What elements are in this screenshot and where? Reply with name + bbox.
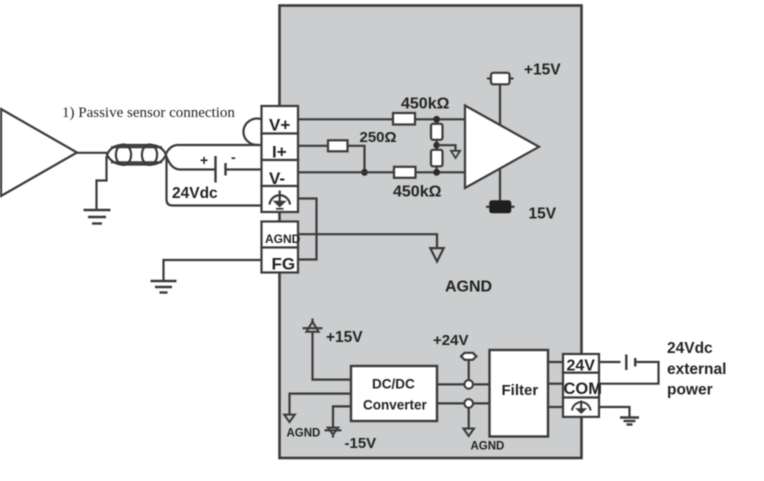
terminal AGND (262, 222, 299, 248)
wire ext battery to COM (599, 362, 659, 384)
svg-text:power: power (667, 382, 713, 399)
terminal shield (262, 186, 299, 212)
wire Filter to 24V terminal (548, 361, 563, 363)
svg-text:450kΩ: 450kΩ (393, 184, 442, 201)
-15V rail arrow (325, 428, 342, 438)
resistor 450k bottom (394, 167, 416, 178)
wire V- to 450k bottom (298, 171, 394, 173)
svg-text:+24V: +24V (433, 332, 468, 349)
svg-text:1) Passive sensor connection: 1) Passive sensor connection (62, 105, 235, 121)
junction dot middle (433, 142, 439, 148)
svg-text:Filter: Filter (502, 382, 539, 399)
svg-text:+15V: +15V (524, 62, 561, 79)
svg-text:AGND: AGND (287, 428, 321, 440)
resistor 450k top (393, 113, 415, 125)
wire upper conductor to I+ (166, 145, 262, 154)
terminal V+ (262, 106, 299, 134)
+24V supply symbol (461, 353, 476, 360)
svg-text:external: external (667, 361, 726, 378)
terminal I+ (262, 134, 299, 161)
junction dot bottom (433, 169, 440, 176)
wire DC/DC to Filter lower (437, 402, 490, 404)
Filter box (490, 350, 549, 437)
wire 450k top to op-amp (415, 118, 465, 120)
shield symbol (power) (572, 401, 591, 415)
junction dot on V- line (361, 169, 368, 176)
svg-text:FG: FG (272, 255, 296, 274)
svg-text:+15V: +15V (326, 329, 363, 346)
divider chain vertical wire (436, 119, 438, 172)
15V supply symbol (black) (486, 201, 515, 213)
wire DC/DC to -15V arrow (333, 406, 351, 427)
twisted-pair cable (107, 145, 166, 165)
node circle upper (464, 380, 473, 389)
svg-text:24Vdc: 24Vdc (667, 340, 713, 357)
wire +15V to op-amp (499, 85, 501, 126)
terminal FG (262, 248, 299, 273)
svg-text:250Ω: 250Ω (360, 129, 397, 146)
battery 24Vdc (216, 156, 226, 183)
wire op-amp to 15V (499, 168, 501, 201)
terminal 24V (563, 354, 599, 373)
ext battery plates (626, 355, 635, 371)
+15V supply symbol (487, 73, 514, 85)
wire +15V arrow to DC/DC (313, 332, 352, 380)
svg-text:AGND: AGND (265, 232, 301, 246)
wire lower node to agnd (468, 408, 470, 429)
svg-text:450kΩ: 450kΩ (401, 96, 450, 113)
svg-text:24Vdc: 24Vdc (172, 185, 218, 202)
svg-text:AGND: AGND (471, 441, 505, 453)
shield symbol (270, 191, 291, 209)
svg-text:15V: 15V (529, 206, 557, 223)
agnd triangle (430, 248, 443, 261)
wire middle tap to agnd arrow (437, 145, 456, 150)
divider resistor lower (431, 150, 443, 167)
wire FG to earth (164, 260, 262, 280)
DC/DC converter box (351, 366, 437, 421)
svg-text:I+: I+ (272, 143, 287, 162)
wire +24V to node (468, 360, 470, 384)
wire Filter to COM terminal (548, 383, 563, 385)
agnd mini triangle (451, 151, 460, 158)
terminal shield (power) (563, 398, 599, 417)
svg-text:Converter: Converter (363, 398, 428, 413)
agnd triangle bottom-left (284, 415, 295, 422)
shield drain wire left (97, 156, 107, 209)
svg-text:-: - (231, 149, 236, 165)
divider resistor upper (431, 124, 443, 140)
wire 24V to ext battery (599, 361, 621, 363)
wire shield terminal to FG loop (298, 199, 317, 260)
+15V rail arrow (bottom) (303, 319, 323, 332)
earth ground (FG) (151, 281, 177, 293)
wire Filter to shield terminal (548, 406, 563, 408)
wire 250 resistor down to V- line (348, 146, 365, 173)
wire DC/DC to AGND arrow (left) (290, 394, 352, 415)
wire I+ to 250 resistor (298, 145, 328, 147)
wire shield to chassis ground (599, 407, 630, 417)
svg-text:V+: V+ (269, 116, 290, 135)
wire DC/DC to Filter upper (437, 383, 490, 385)
wire 450k bottom to op-amp (416, 171, 466, 173)
svg-text:DC/DC: DC/DC (372, 377, 415, 392)
earth ground (sensor shield) (84, 210, 111, 224)
svg-text:+: + (200, 152, 208, 168)
svg-text:COM: COM (564, 380, 603, 398)
sensor triangle (1, 109, 77, 196)
resistor 250 (328, 140, 348, 151)
terminal V- (262, 160, 299, 186)
op-amp (465, 106, 539, 189)
wire AGND terminal to agnd triangle (298, 234, 437, 248)
wire V+ to 450k (298, 118, 393, 120)
jumper arc V+ to I+ (243, 119, 261, 145)
agnd triangle under node (463, 429, 474, 437)
svg-text:AGND: AGND (445, 279, 492, 296)
shield wire to shield terminal (167, 157, 262, 206)
junction dot top (433, 116, 440, 123)
module body gray box (280, 6, 582, 459)
wire lower conductor to battery (166, 156, 215, 170)
terminal COM (563, 373, 599, 398)
chassis ground (620, 418, 639, 425)
wire battery to V- terminal (226, 168, 262, 170)
wire sensor tip to cable (77, 152, 107, 154)
svg-text:-15V: -15V (345, 435, 377, 452)
node circle lower (464, 399, 473, 408)
